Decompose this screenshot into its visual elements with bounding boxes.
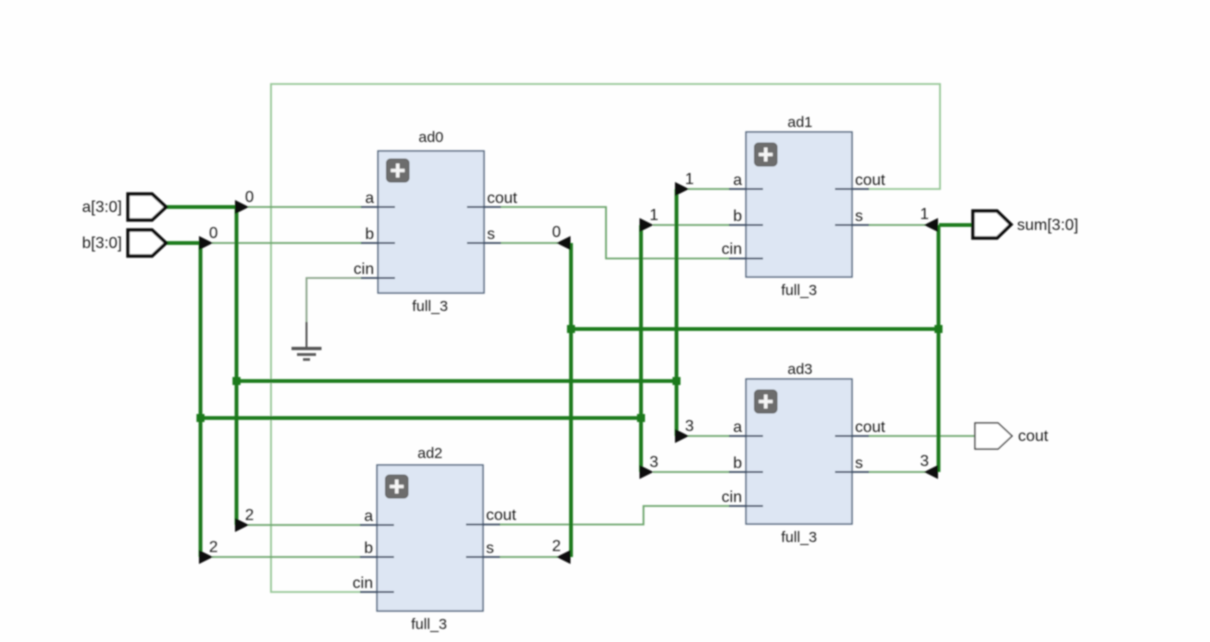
svg-text:1: 1 <box>685 171 694 188</box>
svg-text:2: 2 <box>245 507 254 524</box>
pin ad2.a <box>360 524 394 526</box>
svg-text:cin: cin <box>722 489 742 506</box>
module ad2 <box>353 445 517 633</box>
svg-text:ad0: ad0 <box>418 129 443 146</box>
svg-text:sum[3:0]: sum[3:0] <box>1017 217 1078 234</box>
pin ad3.a <box>729 435 763 437</box>
junction b-bus right <box>637 414 645 422</box>
pin ad2.b <box>360 556 394 558</box>
pin ad3.cin <box>729 505 763 507</box>
tap arrow b3 <box>640 465 654 479</box>
svg-text:b: b <box>733 455 742 472</box>
expand icon ad0 <box>387 159 410 182</box>
svg-text:full_3: full_3 <box>411 616 447 633</box>
pin ad1.b <box>729 224 763 226</box>
wire: ad3.cout to cout port <box>869 435 975 437</box>
tap arrow s1 <box>924 218 938 232</box>
svg-text:cout: cout <box>486 507 517 524</box>
svg-text:s: s <box>855 455 863 472</box>
pin ad1.cin <box>729 258 763 260</box>
bus a[3:0] <box>166 189 677 525</box>
pin ad1.a <box>729 188 763 190</box>
svg-text:cin: cin <box>354 261 374 278</box>
svg-text:0: 0 <box>552 224 561 241</box>
tap arrow s2 <box>557 550 571 564</box>
bus b[3:0] <box>166 225 641 557</box>
svg-text:a[3:0]: a[3:0] <box>82 199 122 216</box>
pin ad2.cin <box>360 591 394 593</box>
svg-text:cin: cin <box>353 575 373 592</box>
svg-text:ad1: ad1 <box>787 114 812 131</box>
wire: branch b3 to ad3.b <box>653 471 730 473</box>
wire: ad2.cout to ad3.cin <box>499 506 730 525</box>
svg-text:b: b <box>364 540 373 557</box>
svg-text:s: s <box>486 540 494 557</box>
svg-text:s: s <box>487 226 495 243</box>
pin ad2.cout <box>466 524 500 526</box>
svg-text:b: b <box>733 208 742 225</box>
module ad0 <box>354 129 518 315</box>
svg-text:full_3: full_3 <box>781 529 817 546</box>
wire: branch ad2.s to sum tap <box>500 556 558 558</box>
pin ad1.cout <box>835 188 869 190</box>
wire: branch b2 to ad2.b <box>212 556 361 558</box>
junction b-bus left <box>197 414 205 422</box>
svg-text:3: 3 <box>920 453 929 470</box>
ground symbol <box>292 322 322 360</box>
tap arrow b1 <box>640 218 654 232</box>
wire: branch a1 to ad1.a <box>688 188 730 190</box>
expand icon ad1 <box>755 143 778 166</box>
pin ad2.s <box>466 556 500 558</box>
svg-text:1: 1 <box>650 207 659 224</box>
pin ad0.cin <box>361 277 395 279</box>
pin ad0.cout <box>467 206 501 208</box>
tap arrow a0 <box>235 200 249 214</box>
module ad3 <box>722 361 886 546</box>
svg-text:full_3: full_3 <box>781 282 817 299</box>
tap arrow b0 <box>199 236 213 250</box>
pin ad3.cout <box>835 435 869 437</box>
junction a-bus right <box>673 377 681 385</box>
wire: branch b1 to ad1.b <box>653 224 730 226</box>
svg-text:a: a <box>364 508 373 525</box>
tap arrow a3 <box>675 429 689 443</box>
svg-text:a: a <box>365 190 374 207</box>
wire: branch a0 to ad0.a <box>248 206 362 208</box>
pin ad1.s <box>835 224 869 226</box>
wire: branch a2 to ad2.a <box>248 524 361 526</box>
svg-text:1: 1 <box>920 206 929 223</box>
expand icon ad3 <box>755 390 778 413</box>
svg-text:cout: cout <box>487 190 518 207</box>
svg-text:cout: cout <box>855 172 886 189</box>
svg-text:0: 0 <box>209 225 218 242</box>
svg-text:2: 2 <box>209 539 218 556</box>
module ad1 <box>722 114 886 299</box>
wire: branch ad3.s to sum tap <box>869 471 927 473</box>
pin ad3.s <box>835 471 869 473</box>
pin ad0.a <box>361 206 395 208</box>
port b[3:0] <box>82 230 166 256</box>
svg-text:cin: cin <box>722 241 742 258</box>
pin ad0.b <box>361 242 395 244</box>
svg-text:0: 0 <box>245 189 254 206</box>
tap arrow s0 <box>557 236 571 250</box>
bus sum[3:0] <box>571 225 973 557</box>
svg-text:a: a <box>733 419 742 436</box>
svg-text:ad2: ad2 <box>417 445 442 462</box>
wire: branch ad1.s to sum tap <box>869 224 927 226</box>
wire: gnd net to ad0.cin <box>307 278 363 330</box>
svg-text:a: a <box>733 172 742 189</box>
expand icon ad2 <box>386 475 409 498</box>
port cout <box>975 423 1049 449</box>
svg-text:ad3: ad3 <box>787 361 812 378</box>
tap arrow b2 <box>199 550 213 564</box>
tap arrow a1 <box>675 182 689 196</box>
wire: branch ad0.s to sum tap <box>501 242 558 244</box>
wire: carry loop ad1.cout to ad2.cin <box>271 84 940 592</box>
svg-text:3: 3 <box>650 454 659 471</box>
svg-text:3: 3 <box>685 418 694 435</box>
junction sum-bus left <box>567 325 575 333</box>
svg-text:full_3: full_3 <box>412 298 448 315</box>
junction a-bus left <box>233 377 241 385</box>
svg-text:cout: cout <box>1018 428 1049 445</box>
pin ad3.b <box>729 471 763 473</box>
svg-text:s: s <box>855 208 863 225</box>
svg-text:b[3:0]: b[3:0] <box>82 235 122 252</box>
wire: branch a3 to ad3.a <box>688 435 730 437</box>
junction sum-bus right <box>935 325 943 333</box>
wire: branch b0 to ad0.b <box>212 242 362 244</box>
svg-text:b: b <box>365 226 374 243</box>
pin ad0.s <box>467 242 501 244</box>
svg-text:cout: cout <box>855 419 886 436</box>
wire: ad0.cout to ad1.cin <box>501 207 730 259</box>
port sum[3:0] <box>973 211 1078 238</box>
port a[3:0] <box>82 194 166 220</box>
tap arrow a2 <box>235 518 249 532</box>
tap arrow s3 <box>924 465 938 479</box>
svg-text:2: 2 <box>552 538 561 555</box>
